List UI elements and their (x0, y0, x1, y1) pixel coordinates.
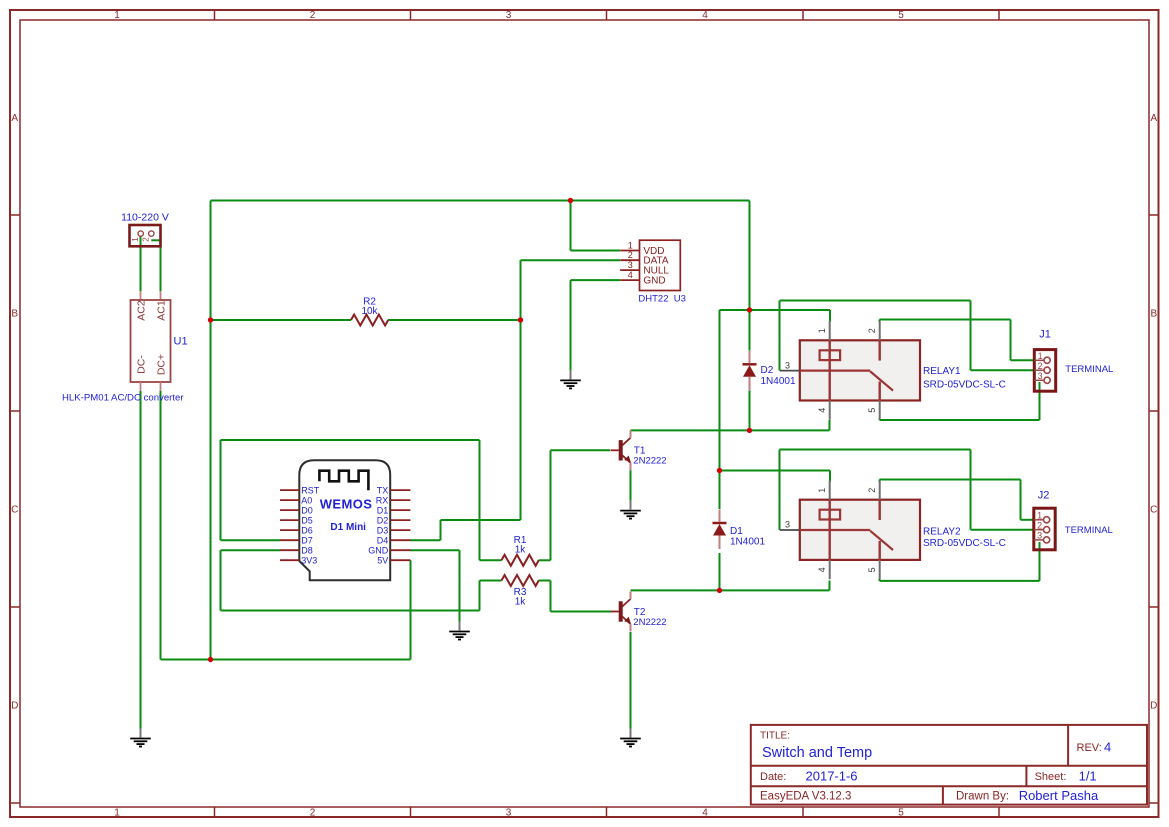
svg-text:Robert Pasha: Robert Pasha (1019, 788, 1099, 803)
svg-text:AC1: AC1 (156, 300, 168, 321)
svg-text:2: 2 (1037, 521, 1042, 531)
svg-text:Switch and Temp: Switch and Temp (762, 745, 872, 761)
svg-text:10k: 10k (361, 306, 378, 317)
svg-text:SRD-05VDC-SL-C: SRD-05VDC-SL-C (923, 538, 1006, 549)
svg-text:1: 1 (130, 237, 140, 242)
svg-text:B: B (11, 309, 18, 320)
svg-text:5: 5 (898, 807, 904, 818)
svg-text:5: 5 (867, 567, 877, 572)
svg-text:1: 1 (817, 488, 827, 493)
svg-text:1N4001: 1N4001 (730, 537, 765, 548)
svg-text:EasyEDA V3.12.3: EasyEDA V3.12.3 (760, 791, 851, 803)
svg-text:D2: D2 (377, 515, 389, 525)
svg-text:1N4001: 1N4001 (761, 376, 796, 387)
svg-text:D6: D6 (301, 525, 313, 535)
svg-text:5: 5 (867, 408, 877, 413)
svg-text:1k: 1k (515, 596, 527, 607)
svg-text:C: C (11, 505, 18, 516)
svg-text:1: 1 (628, 241, 633, 251)
svg-text:3: 3 (506, 10, 512, 21)
svg-text:D7: D7 (301, 535, 313, 545)
svg-text:HLK-PM01 AC/DC converter: HLK-PM01 AC/DC converter (62, 393, 184, 404)
svg-text:D4: D4 (377, 535, 389, 545)
svg-text:5V: 5V (377, 555, 388, 565)
svg-text:1: 1 (817, 328, 827, 333)
svg-text:2: 2 (141, 237, 151, 242)
svg-text:WEMOS: WEMOS (320, 497, 373, 512)
svg-text:Drawn By:: Drawn By: (956, 791, 1009, 803)
svg-text:2: 2 (867, 328, 877, 333)
svg-text:D5: D5 (301, 515, 313, 525)
svg-text:1: 1 (1038, 351, 1043, 361)
svg-text:3: 3 (785, 360, 790, 370)
svg-text:1k: 1k (515, 545, 527, 556)
svg-text:DC-: DC- (136, 355, 148, 374)
svg-text:U1: U1 (174, 336, 188, 348)
svg-text:4: 4 (817, 408, 827, 413)
svg-text:REV:: REV: (1077, 742, 1102, 754)
svg-text:RELAY2: RELAY2 (923, 526, 961, 537)
svg-text:TERMINAL: TERMINAL (1065, 525, 1113, 536)
svg-text:C: C (1150, 505, 1157, 516)
svg-text:1: 1 (114, 10, 120, 21)
svg-text:Date:: Date: (760, 771, 786, 783)
svg-text:AC2: AC2 (136, 300, 148, 321)
svg-text:3: 3 (1037, 531, 1042, 541)
svg-text:J1: J1 (1039, 329, 1051, 341)
svg-text:2: 2 (628, 250, 633, 260)
svg-text:3: 3 (506, 807, 512, 818)
svg-text:4: 4 (702, 10, 708, 21)
svg-text:4: 4 (817, 567, 827, 572)
svg-text:1/1: 1/1 (1079, 768, 1097, 783)
svg-text:TX: TX (377, 485, 389, 495)
svg-text:2N2222: 2N2222 (633, 456, 666, 467)
svg-text:4: 4 (628, 270, 633, 280)
svg-text:1: 1 (1037, 511, 1042, 521)
svg-text:GND: GND (643, 276, 665, 287)
svg-text:D: D (11, 701, 18, 712)
svg-text:J2: J2 (1038, 490, 1050, 502)
svg-text:GND: GND (368, 545, 389, 555)
svg-text:5: 5 (898, 10, 904, 21)
svg-text:D1 Mini: D1 Mini (330, 522, 366, 533)
svg-text:D: D (1150, 701, 1157, 712)
svg-text:3: 3 (785, 520, 790, 530)
svg-text:4: 4 (702, 807, 708, 818)
svg-text:110-220 V: 110-220 V (121, 212, 169, 224)
svg-text:RELAY1: RELAY1 (923, 366, 961, 377)
svg-text:2N2222: 2N2222 (633, 617, 666, 628)
svg-text:SRD-05VDC-SL-C: SRD-05VDC-SL-C (923, 379, 1006, 390)
svg-text:D2: D2 (761, 365, 774, 376)
svg-text:DHT22 U3: DHT22 U3 (638, 294, 686, 305)
svg-text:D8: D8 (301, 545, 313, 555)
svg-text:1: 1 (114, 807, 120, 818)
svg-text:Sheet:: Sheet: (1035, 771, 1067, 783)
svg-text:2017-1-6: 2017-1-6 (806, 768, 858, 783)
svg-text:D3: D3 (377, 525, 389, 535)
svg-text:2: 2 (1038, 361, 1043, 371)
svg-text:B: B (1150, 309, 1157, 320)
svg-text:A: A (1150, 113, 1157, 124)
svg-text:D1: D1 (730, 526, 743, 537)
svg-text:2: 2 (310, 807, 316, 818)
svg-text:2: 2 (867, 488, 877, 493)
svg-text:A0: A0 (301, 495, 312, 505)
svg-text:RST: RST (301, 485, 320, 495)
svg-text:4: 4 (1104, 740, 1111, 755)
svg-text:3: 3 (628, 260, 633, 270)
svg-text:2: 2 (310, 10, 316, 21)
svg-text:TITLE:: TITLE: (760, 731, 790, 742)
svg-text:D1: D1 (377, 505, 389, 515)
svg-text:RX: RX (376, 495, 389, 505)
svg-text:D0: D0 (301, 505, 313, 515)
svg-text:TERMINAL: TERMINAL (1065, 364, 1113, 375)
svg-text:DC+: DC+ (156, 354, 168, 375)
svg-text:A: A (11, 113, 18, 124)
svg-text:3V3: 3V3 (301, 555, 317, 565)
svg-text:3: 3 (1038, 371, 1043, 381)
